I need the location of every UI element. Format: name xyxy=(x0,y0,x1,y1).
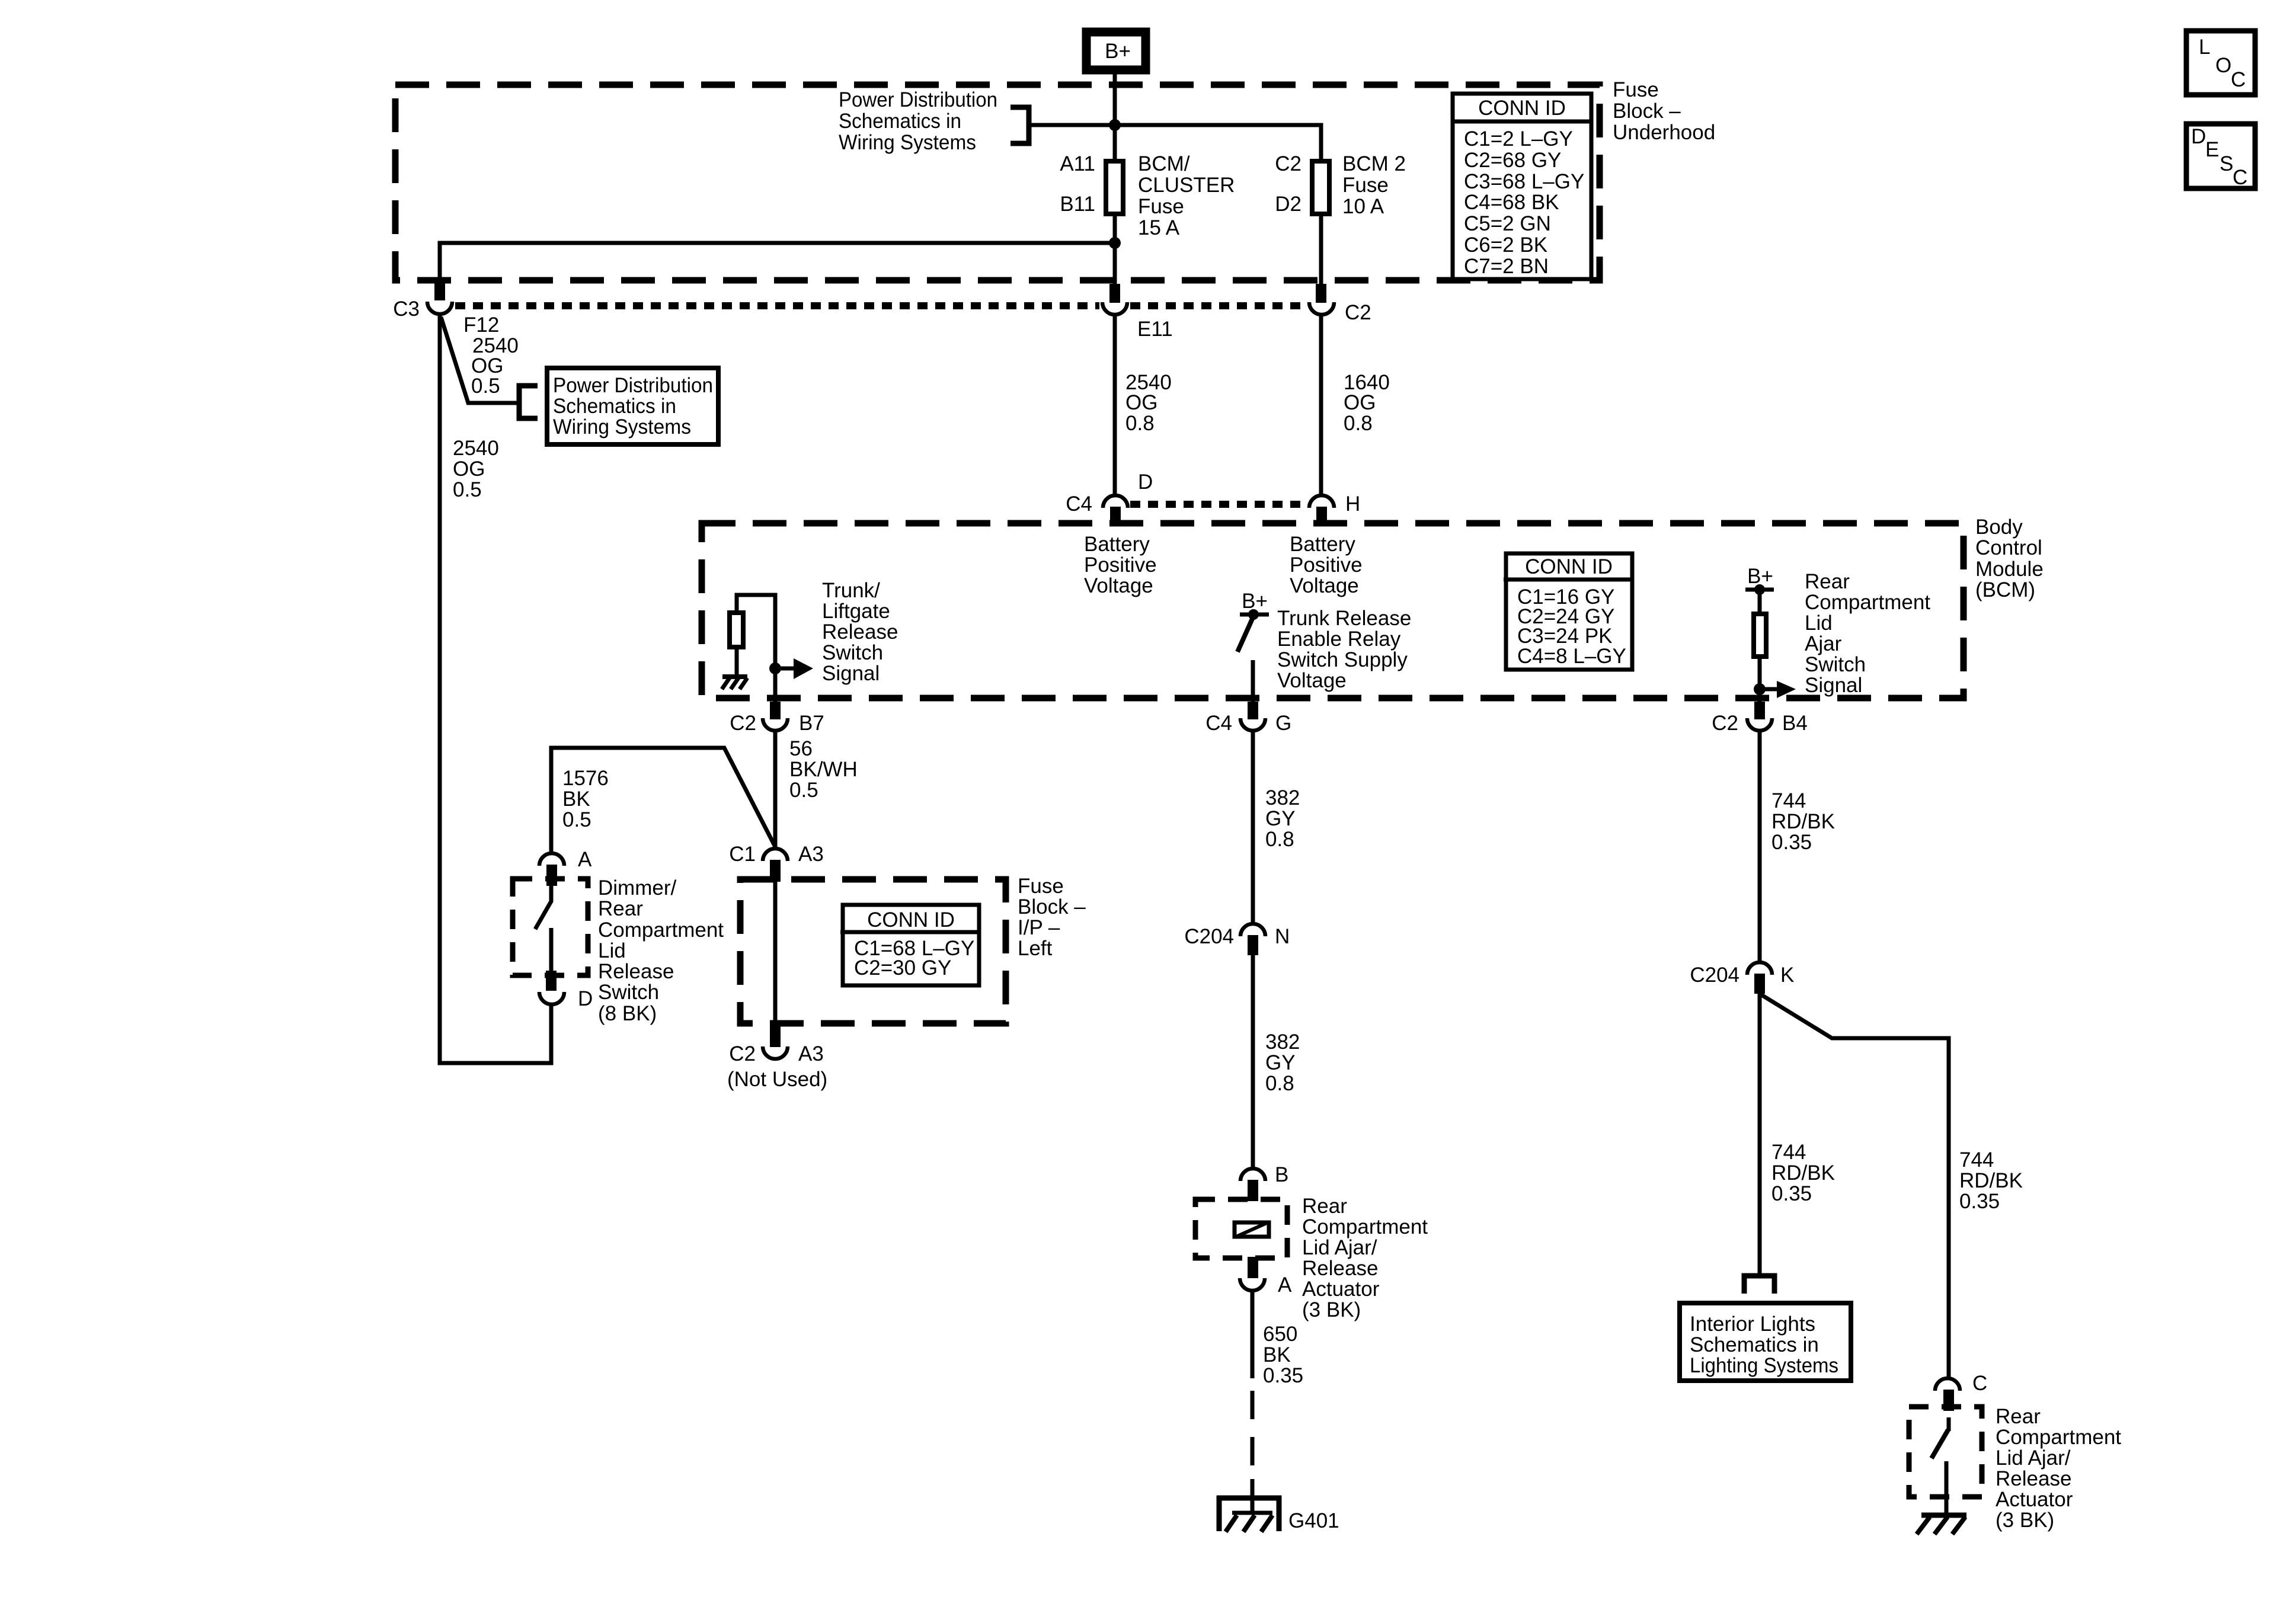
svg-text:15 A: 15 A xyxy=(1138,216,1180,239)
svg-text:Battery: Battery xyxy=(1084,533,1150,556)
CONN ID table (BCM) xyxy=(1504,553,1634,670)
svg-text:B+: B+ xyxy=(1242,590,1268,613)
circuit label 744 RD/BK 0.35 (left lower) xyxy=(1771,1141,1835,1205)
svg-text:Module: Module xyxy=(1975,558,2044,581)
wire N drop 382 GY 0.8 xyxy=(1251,954,1255,1169)
svg-text:0.5: 0.5 xyxy=(471,375,500,398)
svg-text:D2: D2 xyxy=(1275,193,1302,216)
svg-text:Left: Left xyxy=(1018,937,1053,960)
circuit label 1640 OG 0.8 xyxy=(1344,371,1390,435)
Battery Positive Voltage label (right) xyxy=(1290,533,1363,597)
actuator ajar switch blade xyxy=(1932,1417,1949,1515)
circuit label 2540 OG 0.8 xyxy=(1125,371,1172,435)
svg-text:RD/BK: RD/BK xyxy=(1771,810,1835,833)
node junction at B+ stem xyxy=(1109,119,1121,131)
svg-text:OG: OG xyxy=(1125,391,1157,414)
svg-text:Fuse: Fuse xyxy=(1342,174,1389,197)
svg-text:B: B xyxy=(1275,1163,1288,1186)
circuit label 382 GY 0.8 (lower) xyxy=(1265,1030,1300,1095)
svg-text:C6=2 BK: C6=2 BK xyxy=(1464,233,1547,257)
svg-text:Signal: Signal xyxy=(1805,674,1862,697)
LOC index box xyxy=(2186,31,2255,95)
svg-text:Ajar: Ajar xyxy=(1805,632,1842,655)
wire K to interior lights feed xyxy=(1758,991,1762,1274)
svg-text:0.35: 0.35 xyxy=(1771,831,1812,854)
svg-text:A11: A11 xyxy=(1060,152,1095,175)
connector pin A (dimmer switch) xyxy=(539,848,592,886)
svg-text:B+: B+ xyxy=(1105,40,1131,63)
wire bus from bracket to BCM2 fuse xyxy=(1031,125,1321,159)
svg-text:C4=68 BK: C4=68 BK xyxy=(1464,191,1559,214)
svg-text:BK: BK xyxy=(562,788,590,811)
svg-text:Voltage: Voltage xyxy=(1277,669,1347,692)
svg-text:(Not Used): (Not Used) xyxy=(727,1068,827,1091)
svg-text:C2: C2 xyxy=(1345,301,1371,324)
svg-text:Rear: Rear xyxy=(1996,1405,2041,1428)
Rear Compartment Lid Ajar/Release Actuator label xyxy=(1302,1195,1428,1321)
Rear Compartment Lid Ajar/Release Actuator dashed box (rear) xyxy=(1909,1407,1982,1497)
svg-text:Voltage: Voltage xyxy=(1290,574,1359,597)
circuit label 2540 OG 0.5 (left drop) xyxy=(453,437,499,501)
svg-text:Power Distribution: Power Distribution xyxy=(553,374,713,397)
svg-text:C4: C4 xyxy=(1066,492,1092,516)
svg-text:Compartment: Compartment xyxy=(598,918,724,942)
connector C2 pin B4 (BCM bottom) xyxy=(1712,702,1808,735)
circuit label 382 GY 0.8 (upper) xyxy=(1265,786,1300,851)
CONN ID table (underhood) xyxy=(1451,94,1593,279)
svg-text:Rear: Rear xyxy=(1302,1195,1347,1218)
connector C2 pin A3 (not used) xyxy=(727,1025,827,1091)
svg-text:Compartment: Compartment xyxy=(1805,591,1930,614)
svg-text:B11: B11 xyxy=(1060,193,1095,216)
wire branch to C3 xyxy=(440,243,1115,281)
svg-text:744: 744 xyxy=(1771,1141,1806,1164)
Battery Positive Voltage label (left) xyxy=(1084,533,1157,597)
svg-text:GY: GY xyxy=(1265,1051,1296,1074)
svg-text:C2: C2 xyxy=(730,712,756,735)
svg-text:C: C xyxy=(2231,68,2246,91)
svg-text:C3: C3 xyxy=(393,297,420,321)
svg-text:0.35: 0.35 xyxy=(1263,1364,1303,1387)
svg-text:Release: Release xyxy=(1996,1467,2071,1490)
svg-text:Compartment: Compartment xyxy=(1996,1426,2121,1449)
connector pin B (lid ajar/release actuator) xyxy=(1240,1163,1288,1201)
svg-text:1576: 1576 xyxy=(562,767,609,790)
Power Distribution reference box (left) xyxy=(547,368,718,444)
svg-text:S: S xyxy=(2220,152,2233,175)
svg-text:Wiring Systems: Wiring Systems xyxy=(553,415,691,438)
svg-text:Switch: Switch xyxy=(1805,653,1866,676)
Rear Compartment Lid Ajar Switch Signal label xyxy=(1805,570,1930,697)
svg-text:Underhood: Underhood xyxy=(1613,121,1715,144)
svg-text:C2: C2 xyxy=(729,1042,756,1065)
svg-text:382: 382 xyxy=(1265,786,1300,809)
svg-text:Switch Supply: Switch Supply xyxy=(1277,648,1408,671)
svg-text:0.8: 0.8 xyxy=(1125,412,1155,435)
svg-text:RD/BK: RD/BK xyxy=(1771,1161,1835,1185)
svg-text:Release: Release xyxy=(1302,1257,1378,1280)
svg-text:C2: C2 xyxy=(1712,712,1738,735)
svg-text:CONN ID: CONN ID xyxy=(1525,555,1613,578)
svg-text:Actuator: Actuator xyxy=(1302,1278,1380,1301)
Fuse Block I/P - Left label xyxy=(1018,875,1086,960)
wire C4/G drop 382 GY 0.8 xyxy=(1251,730,1255,924)
svg-text:N: N xyxy=(1275,925,1290,948)
svg-text:Block –: Block – xyxy=(1018,895,1086,918)
connector C2 (fuse block) xyxy=(1309,284,1371,324)
svg-text:Liftgate: Liftgate xyxy=(822,600,890,623)
chassis ground (rear actuator) xyxy=(1917,1515,1966,1534)
off-page bracket to Power Distribution (left) xyxy=(519,386,538,418)
svg-text:CONN ID: CONN ID xyxy=(1478,97,1566,120)
svg-text:0.5: 0.5 xyxy=(562,808,591,831)
Body Control Module label xyxy=(1975,516,2044,601)
svg-text:0.5: 0.5 xyxy=(789,779,818,802)
svg-text:D: D xyxy=(1138,470,1153,494)
svg-text:C: C xyxy=(1972,1372,1987,1395)
svg-text:Positive: Positive xyxy=(1290,553,1363,577)
svg-text:0.5: 0.5 xyxy=(453,478,482,501)
svg-text:Release: Release xyxy=(598,960,674,983)
svg-text:BK/WH: BK/WH xyxy=(789,758,858,781)
svg-text:Lid: Lid xyxy=(1805,612,1833,635)
svg-text:I/P –: I/P – xyxy=(1018,916,1060,939)
Fuse Block - Underhood dashed box xyxy=(395,85,1600,280)
svg-text:B4: B4 xyxy=(1782,712,1808,735)
svg-text:382: 382 xyxy=(1265,1030,1300,1054)
CONN ID table (I/P fuse block) xyxy=(840,905,981,985)
svg-text:Switch: Switch xyxy=(598,981,659,1004)
svg-text:OG: OG xyxy=(1344,391,1376,414)
wire E11 to BCM C4/D 2540 OG 0.8 xyxy=(1113,314,1117,497)
connector C2 pin B7 (BCM bottom) xyxy=(730,702,824,735)
svg-text:Lid Ajar/: Lid Ajar/ xyxy=(1302,1236,1377,1259)
svg-text:G401: G401 xyxy=(1288,1509,1339,1532)
svg-text:0.8: 0.8 xyxy=(1265,828,1294,851)
wire B4 drop 744 RD/BK 0.35 xyxy=(1758,730,1762,963)
svg-text:C1: C1 xyxy=(729,843,756,866)
wire 2540 OG 0.5 long left drop xyxy=(440,313,551,1063)
in-line dotted link D-H xyxy=(1130,501,1306,508)
connector C4 pin G (BCM bottom) xyxy=(1205,702,1291,735)
svg-text:BCM/: BCM/ xyxy=(1138,152,1190,175)
ground G401 xyxy=(1217,1496,1339,1532)
svg-text:(BCM): (BCM) xyxy=(1975,578,2035,601)
svg-text:744: 744 xyxy=(1959,1148,1994,1172)
svg-text:O: O xyxy=(2215,54,2231,77)
connector C204 pin N xyxy=(1184,924,1290,955)
fuse BCM 2 10 A xyxy=(1275,152,1406,218)
connector C204 pin K xyxy=(1690,962,1794,994)
wire dimmer switch branch xyxy=(551,748,775,852)
fuse BCM/CLUSTER 15 A xyxy=(1060,152,1235,239)
svg-text:Lid Ajar/: Lid Ajar/ xyxy=(1996,1446,2071,1470)
svg-text:Battery: Battery xyxy=(1290,533,1355,556)
svg-text:Schematics in: Schematics in xyxy=(553,395,676,418)
wire B+ stem xyxy=(1113,74,1117,159)
svg-text:Lighting Systems: Lighting Systems xyxy=(1690,1354,1838,1377)
in-line harness dotted link C3-E11-C2 xyxy=(455,302,1099,309)
svg-text:Actuator: Actuator xyxy=(1996,1488,2073,1511)
Interior Lights reference box xyxy=(1680,1303,1851,1381)
svg-text:C1=2 L–GY: C1=2 L–GY xyxy=(1464,127,1573,151)
svg-text:BCM 2: BCM 2 xyxy=(1342,152,1406,175)
svg-text:Enable Relay: Enable Relay xyxy=(1277,628,1401,651)
Fuse Block - Underhood label xyxy=(1613,78,1715,144)
circuit label F12 2540 OG 0.5 xyxy=(463,313,519,398)
svg-text:GY: GY xyxy=(1265,807,1296,830)
svg-text:RD/BK: RD/BK xyxy=(1959,1169,2023,1192)
svg-text:C204: C204 xyxy=(1184,925,1234,948)
BCM internal ground (left) xyxy=(722,677,747,689)
svg-text:A: A xyxy=(578,848,592,871)
svg-text:650: 650 xyxy=(1263,1323,1297,1346)
svg-text:56: 56 xyxy=(789,737,813,760)
svg-text:C: C xyxy=(2233,166,2247,189)
Power Distribution reference label (top) xyxy=(839,88,997,154)
svg-text:0.35: 0.35 xyxy=(1959,1190,2000,1213)
svg-text:H: H xyxy=(1345,492,1360,516)
svg-text:Wiring Systems: Wiring Systems xyxy=(839,131,976,154)
svg-text:Control: Control xyxy=(1975,536,2042,559)
svg-text:(3 BK): (3 BK) xyxy=(1996,1509,2054,1532)
svg-text:Power Distribution: Power Distribution xyxy=(839,88,997,111)
svg-text:0.8: 0.8 xyxy=(1344,412,1373,435)
node junction + signal arrow (trunk/liftgate release switch signal) xyxy=(769,658,813,679)
Rear Compartment Lid Ajar/Release Actuator label (rear) xyxy=(1996,1405,2121,1532)
svg-text:C4=8 L–GY: C4=8 L–GY xyxy=(1517,645,1626,668)
svg-text:C204: C204 xyxy=(1690,964,1739,987)
svg-text:C2=68 GY: C2=68 GY xyxy=(1464,149,1561,172)
Dimmer/Rear Compartment Lid Release Switch label xyxy=(598,876,724,1025)
wire to connector C2/B7 xyxy=(773,668,778,702)
BCM internal B+ supply with relay switch xyxy=(1237,590,1269,702)
svg-text:Schematics in: Schematics in xyxy=(1690,1333,1819,1356)
off-page bracket to Power Distribution (top) xyxy=(1011,107,1029,143)
circuit label 744 RD/BK 0.35 (right lower) xyxy=(1959,1148,2023,1213)
battery feed B+ terminal xyxy=(1086,32,1146,70)
svg-text:A: A xyxy=(1278,1273,1292,1297)
svg-text:D: D xyxy=(2191,125,2206,148)
connector pin A (lid ajar/release actuator) xyxy=(1240,1273,1292,1297)
svg-text:0.8: 0.8 xyxy=(1265,1072,1294,1095)
connector C3 (fuse block) xyxy=(393,280,452,321)
svg-text:OG: OG xyxy=(453,457,485,481)
svg-text:744: 744 xyxy=(1771,789,1806,812)
svg-text:Switch: Switch xyxy=(822,641,883,664)
circuit label 1576 BK 0.5 xyxy=(562,767,609,831)
circuit label 744 RD/BK 0.35 (upper) xyxy=(1771,789,1835,854)
svg-text:Trunk/: Trunk/ xyxy=(822,579,880,602)
svg-text:C3=68 L–GY: C3=68 L–GY xyxy=(1464,170,1584,193)
svg-text:Trunk Release: Trunk Release xyxy=(1277,607,1411,630)
svg-text:BK: BK xyxy=(1263,1343,1291,1366)
svg-text:B7: B7 xyxy=(799,712,824,735)
wire through fuse block I/P xyxy=(773,881,778,1031)
connector pin D (dimmer switch) xyxy=(539,987,593,1010)
circuit label 56 BK/WH 0.5 xyxy=(789,737,858,802)
Trunk/Liftgate Release Switch Signal label xyxy=(822,579,898,685)
svg-text:C2: C2 xyxy=(1275,152,1302,175)
svg-text:Interior Lights: Interior Lights xyxy=(1690,1313,1815,1336)
svg-text:Body: Body xyxy=(1975,516,2023,539)
svg-text:F12: F12 xyxy=(463,313,499,337)
svg-text:Lid: Lid xyxy=(598,939,626,962)
node junction + signal arrow (rear compartment lid ajar switch signal) xyxy=(1754,681,1796,698)
svg-text:L: L xyxy=(2199,36,2210,59)
svg-text:CLUSTER: CLUSTER xyxy=(1138,174,1235,197)
wire fuse1 to connector E11 xyxy=(1113,214,1117,284)
connector E11 xyxy=(1102,284,1173,341)
wire F12 circuit 2540 OG 0.5 to bracket xyxy=(441,317,519,403)
svg-text:Fuse: Fuse xyxy=(1613,78,1659,101)
Body Control Module dashed box xyxy=(702,523,1964,698)
svg-text:Positive: Positive xyxy=(1084,553,1157,577)
Fuse Block I/P - Left dashed box xyxy=(740,879,1006,1023)
svg-text:D: D xyxy=(578,987,593,1010)
svg-text:(3 BK): (3 BK) xyxy=(1302,1298,1361,1321)
wire B7 drop 56 BK/WH 0.5 xyxy=(773,730,778,847)
svg-text:Dimmer/: Dimmer/ xyxy=(598,876,676,900)
off-page bracket to Interior Lights xyxy=(1744,1276,1774,1294)
svg-text:Signal: Signal xyxy=(822,662,880,685)
connector C1 pin A3 (fuse block I/P) xyxy=(729,843,824,882)
Trunk Release Enable Relay Switch Supply Voltage label xyxy=(1277,607,1411,692)
svg-text:G: G xyxy=(1275,712,1291,735)
svg-text:Fuse: Fuse xyxy=(1138,195,1184,218)
wire dashed segment to ground xyxy=(1251,1391,1255,1481)
connector pin C (lid ajar/release actuator rear) xyxy=(1935,1372,1987,1411)
svg-text:E: E xyxy=(2205,138,2219,161)
svg-text:A3: A3 xyxy=(798,843,824,866)
svg-text:C5=2 GN: C5=2 GN xyxy=(1464,212,1551,235)
Dimmer/Rear Compartment Lid Release Switch dashed box xyxy=(513,879,588,975)
connector pin H (BCM top) xyxy=(1309,492,1360,526)
svg-text:A3: A3 xyxy=(798,1042,824,1065)
svg-text:C4: C4 xyxy=(1205,712,1232,735)
svg-text:E11: E11 xyxy=(1137,318,1173,341)
svg-text:Release: Release xyxy=(822,620,898,644)
svg-text:Rear: Rear xyxy=(1805,570,1850,593)
wire fuse2 to connector C2 xyxy=(1319,214,1323,284)
svg-text:0.35: 0.35 xyxy=(1771,1182,1812,1205)
circuit label 650 BK 0.35 xyxy=(1263,1323,1303,1387)
Rear Compartment Lid Ajar/Release Actuator dashed box xyxy=(1195,1199,1287,1258)
svg-text:Rear: Rear xyxy=(598,897,643,920)
svg-text:Compartment: Compartment xyxy=(1302,1215,1428,1238)
actuator relay coil symbol xyxy=(1235,1222,1269,1237)
svg-text:10 A: 10 A xyxy=(1342,195,1384,218)
wire C2 to BCM H 1640 OG 0.8 xyxy=(1319,314,1323,497)
svg-text:C2=30 GY: C2=30 GY xyxy=(854,956,951,980)
svg-text:(8 BK): (8 BK) xyxy=(598,1002,657,1025)
svg-text:C7=2 BN: C7=2 BN xyxy=(1464,255,1549,278)
svg-text:Voltage: Voltage xyxy=(1084,574,1153,597)
wire A drop 650 BK 0.35 xyxy=(1251,1290,1255,1378)
node junction on fuse1 wire xyxy=(1109,237,1121,249)
svg-text:2540: 2540 xyxy=(453,437,499,460)
svg-text:Block –: Block – xyxy=(1613,100,1681,123)
svg-text:K: K xyxy=(1780,964,1794,987)
actuator lower stub xyxy=(1248,1257,1258,1278)
svg-text:CONN ID: CONN ID xyxy=(867,908,955,932)
BCM internal B+ pull-up (lid ajar switch input) xyxy=(1745,565,1774,702)
DESC index box xyxy=(2186,124,2255,189)
BCM internal pull-up resistor (trunk release switch input) xyxy=(730,595,775,676)
svg-text:Fuse: Fuse xyxy=(1018,875,1064,898)
dimmer switch blade xyxy=(535,883,551,929)
dimmer switch lower contact xyxy=(549,928,554,973)
svg-text:Schematics in: Schematics in xyxy=(839,110,961,133)
wire K branch to actuator pin C xyxy=(1760,994,1949,1379)
connector C4 pin D (BCM top) xyxy=(1066,470,1153,526)
